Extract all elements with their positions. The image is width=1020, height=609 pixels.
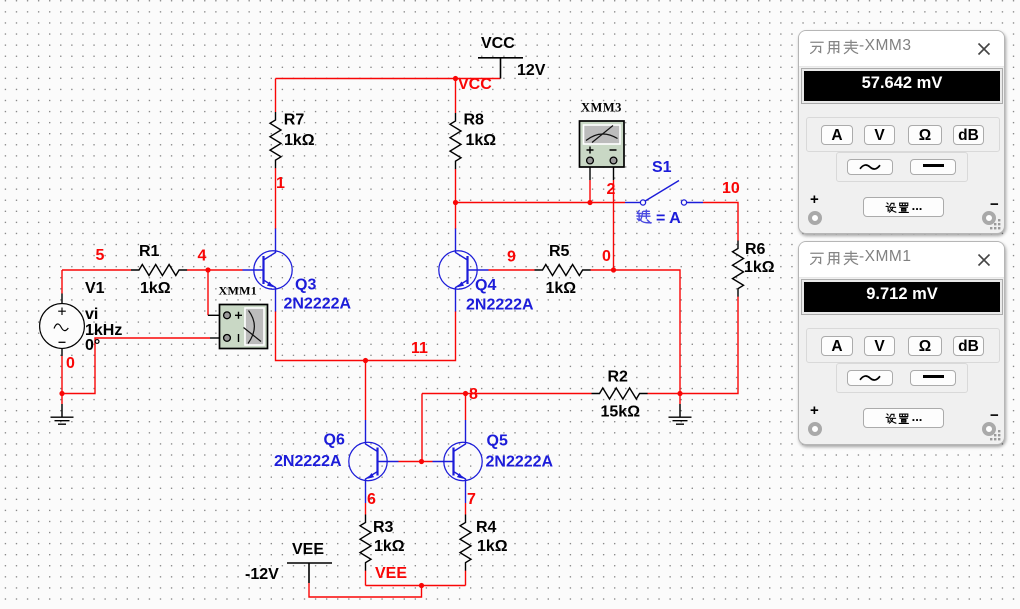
svg-text:R5: R5 bbox=[549, 243, 570, 260]
svg-text:R8: R8 bbox=[464, 112, 485, 129]
svg-text:1kΩ: 1kΩ bbox=[466, 132, 497, 149]
svg-text:1kΩ: 1kΩ bbox=[374, 538, 405, 555]
resistor R2 bbox=[592, 388, 648, 399]
svg-text:vi: vi bbox=[85, 306, 98, 323]
svg-text:-12V: -12V bbox=[245, 566, 279, 583]
wire XMM3 plus lead red bbox=[589, 180, 591, 203]
svg-text:4: 4 bbox=[198, 248, 207, 265]
wire node 4 down to XMM1 plus bbox=[207, 270, 209, 315]
svg-text:12V: 12V bbox=[517, 62, 546, 79]
svg-text:2: 2 bbox=[607, 181, 616, 198]
node junction ground right bbox=[677, 391, 682, 396]
power VEE symbol bbox=[287, 563, 332, 583]
wire R7 bottom to Q3 collector bbox=[275, 168, 277, 229]
svg-text:R3: R3 bbox=[373, 519, 394, 536]
resistor R1 bbox=[131, 265, 187, 276]
wire R8 bottom bbox=[455, 169, 457, 203]
resistor R4 bbox=[460, 515, 471, 571]
svg-text:0°: 0° bbox=[85, 337, 100, 354]
svg-text:Q4: Q4 bbox=[475, 277, 496, 294]
wire V1 bottom bbox=[61, 356, 63, 394]
wire VEE source path bbox=[309, 583, 422, 597]
svg-text:R7: R7 bbox=[284, 112, 305, 129]
wire top rail VCC net bbox=[276, 78, 501, 80]
switch S1 bbox=[625, 181, 703, 206]
node junction top rail / R8 bbox=[453, 76, 458, 81]
svg-text:R4: R4 bbox=[476, 519, 497, 536]
svg-text:15kΩ: 15kΩ bbox=[601, 404, 641, 421]
node junction mid rail XMM3+ bbox=[587, 200, 592, 205]
wire mid rail node 2 bbox=[456, 202, 626, 204]
svg-text:XMM3: XMM3 bbox=[581, 101, 622, 115]
wire R6 bottom to ground rail bbox=[680, 297, 738, 394]
resistor R8 bbox=[450, 113, 461, 169]
wire Q5 emitter red bbox=[465, 503, 467, 515]
wire R8 top bbox=[455, 79, 457, 114]
wire VEE rail bbox=[366, 585, 466, 587]
wire XMM3 minus lead to node 0 bbox=[613, 180, 615, 270]
ground left bbox=[51, 394, 74, 425]
wire R7 top bbox=[275, 79, 277, 113]
svg-text:2N2222A: 2N2222A bbox=[284, 296, 352, 313]
instrument XMM1 icon bbox=[220, 305, 268, 349]
power VCC symbol bbox=[478, 58, 523, 79]
resistor R7 bbox=[270, 112, 281, 168]
svg-text:8: 8 bbox=[469, 386, 478, 403]
resistor R3 bbox=[360, 515, 371, 571]
wire XMM3 minus lead black bbox=[613, 163, 615, 180]
svg-text:1kΩ: 1kΩ bbox=[140, 280, 171, 297]
svg-text:1: 1 bbox=[276, 175, 285, 192]
wire Q6 emitter red bbox=[365, 503, 367, 515]
svg-text:5: 5 bbox=[96, 247, 105, 264]
source V1 sine bbox=[40, 294, 85, 357]
wire R1 right to node 4 bbox=[187, 269, 208, 271]
svg-text:9: 9 bbox=[507, 248, 516, 265]
svg-text:2N2222A: 2N2222A bbox=[486, 453, 554, 470]
svg-text:S1: S1 bbox=[652, 159, 672, 176]
transistor Q3 bbox=[243, 229, 293, 312]
transistor Q4 bbox=[439, 229, 489, 312]
ground right bbox=[669, 394, 692, 425]
wire node 8 down to base rail bbox=[421, 394, 423, 462]
node junction 8 / Q5 collector bbox=[463, 391, 468, 396]
wire Q5 collector feed bbox=[465, 394, 467, 421]
svg-text:= A: = A bbox=[656, 210, 681, 227]
wire XMM1 plus black lead bbox=[208, 314, 224, 316]
svg-text:11: 11 bbox=[411, 340, 428, 357]
transistor Q6 bbox=[349, 420, 399, 503]
wire XMM3 plus lead black bbox=[589, 163, 591, 180]
node junction VEE rail bbox=[419, 583, 424, 588]
svg-text:1kΩ: 1kΩ bbox=[284, 132, 315, 149]
svg-text:VCC: VCC bbox=[481, 35, 515, 52]
wire Q4 collector feed bbox=[455, 203, 457, 230]
wire Q6 collector feed bbox=[365, 361, 367, 421]
svg-text:1kΩ: 1kΩ bbox=[546, 280, 577, 297]
wire node 0 rail bbox=[614, 270, 681, 394]
wire R2 right to ground bbox=[648, 393, 681, 395]
svg-text:7: 7 bbox=[467, 491, 476, 508]
svg-text:6: 6 bbox=[367, 491, 376, 508]
svg-text:XMM1: XMM1 bbox=[219, 284, 258, 298]
svg-text:2N2222A: 2N2222A bbox=[466, 296, 534, 313]
transistor Q5 bbox=[433, 420, 483, 503]
wire node 11 rail bbox=[276, 311, 456, 361]
wire Q4 base to R5 bbox=[489, 269, 535, 271]
svg-text:R1: R1 bbox=[139, 243, 160, 260]
svg-text:R2: R2 bbox=[608, 369, 629, 386]
wire S1 to R6 top node 10 bbox=[703, 203, 738, 241]
node junction 4 bbox=[205, 267, 210, 272]
wire XMM1 minus black lead bbox=[210, 337, 224, 339]
wire R1 left bbox=[62, 269, 131, 271]
resistor R5 bbox=[535, 265, 591, 276]
instrument XMM3 icon bbox=[580, 121, 625, 167]
wire ground branch to XMM1 minus bbox=[62, 338, 210, 394]
wire R3 bottom bbox=[365, 571, 367, 586]
svg-text:VCC: VCC bbox=[458, 76, 492, 93]
svg-text:Q5: Q5 bbox=[487, 432, 508, 449]
wire V1 top bbox=[61, 270, 63, 294]
label S1 key = A bbox=[637, 210, 681, 227]
svg-text:1kΩ: 1kΩ bbox=[477, 538, 508, 555]
wire R4 bottom bbox=[465, 571, 467, 586]
wire R5 right bbox=[591, 269, 614, 271]
svg-text:R6: R6 bbox=[745, 241, 766, 258]
node junction 11 / Q6 collector bbox=[363, 358, 368, 363]
svg-text:2N2222A: 2N2222A bbox=[274, 453, 342, 470]
svg-text:Q6: Q6 bbox=[324, 432, 345, 449]
svg-text:VEE: VEE bbox=[375, 565, 407, 582]
svg-text:VEE: VEE bbox=[292, 541, 324, 558]
svg-text:1kΩ: 1kΩ bbox=[744, 259, 775, 276]
wire base rail Q6-Q5 left bbox=[399, 461, 433, 463]
node junction mid rail left bbox=[453, 200, 458, 205]
svg-text:Q3: Q3 bbox=[295, 277, 316, 294]
svg-text:0: 0 bbox=[66, 355, 75, 372]
wire node 8 rail bbox=[422, 393, 592, 395]
node junction base rail bbox=[419, 459, 424, 464]
node junction 0 at R5 bbox=[611, 267, 616, 272]
resistor R6 bbox=[733, 241, 744, 297]
svg-text:10: 10 bbox=[722, 180, 740, 197]
svg-text:V1: V1 bbox=[85, 280, 105, 297]
node junction 0 at V1 ground bbox=[59, 391, 64, 396]
wire node4 to Q3 base bbox=[208, 269, 243, 271]
svg-text:0: 0 bbox=[602, 248, 611, 265]
